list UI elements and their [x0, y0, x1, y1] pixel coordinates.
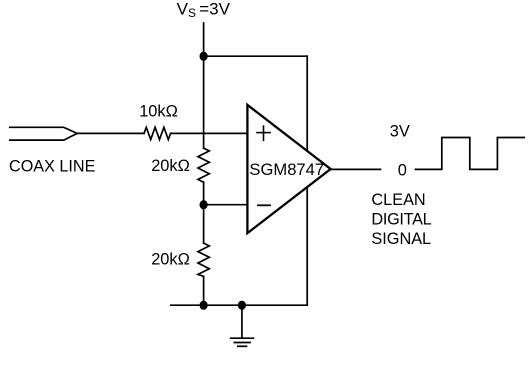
- svg-text:10kΩ: 10kΩ: [139, 103, 178, 121]
- resistor 10k R1: [144, 127, 171, 139]
- node ground junction: [238, 301, 246, 310]
- pin minus symbol: [258, 204, 270, 206]
- svg-text:20kΩ: 20kΩ: [151, 250, 190, 268]
- svg-text:3V: 3V: [390, 122, 410, 140]
- wire resistor to plus input: [171, 132, 248, 134]
- resistor 20k upper: [198, 148, 209, 182]
- wire ground stem: [241, 305, 243, 338]
- svg-text:CLEAN: CLEAN: [371, 191, 425, 209]
- wire divider mid segment: [203, 182, 205, 243]
- svg-text:=3V: =3V: [199, 0, 230, 19]
- svg-text:20kΩ: 20kΩ: [151, 157, 190, 175]
- op-amp U1 SGM8747: [247, 105, 330, 233]
- ground: [231, 338, 254, 346]
- svg-text:COAX LINE: COAX LINE: [9, 158, 96, 176]
- wire coax to resistor: [77, 132, 144, 134]
- resistor 20k lower: [198, 243, 209, 276]
- coax line connector: [10, 127, 77, 133]
- wire top supply rail: [204, 55, 308, 57]
- svg-text:0: 0: [398, 161, 407, 179]
- svg-text:SGM8747: SGM8747: [249, 160, 324, 179]
- label CLEAN DIGITAL SIGNAL: [371, 191, 431, 248]
- wire VS supply drop: [203, 23, 205, 56]
- wire right supply vertical: [306, 56, 308, 305]
- svg-text:DIGITAL: DIGITAL: [371, 211, 431, 229]
- wire minus input: [204, 204, 248, 206]
- wire bottom ground rail: [171, 304, 307, 306]
- pin plus symbol: [257, 126, 270, 140]
- waveform clean digital signal: [416, 138, 525, 170]
- node supply junction: [200, 52, 208, 61]
- net VS label: [177, 0, 231, 20]
- wire divider top segment: [203, 56, 205, 148]
- node divider midpoint: [200, 200, 208, 209]
- wire output: [331, 168, 381, 170]
- wire divider bottom segment: [203, 276, 205, 305]
- node ground rail left junction: [200, 301, 208, 310]
- svg-text:VS: VS: [177, 0, 196, 20]
- svg-text:SIGNAL: SIGNAL: [371, 230, 431, 248]
